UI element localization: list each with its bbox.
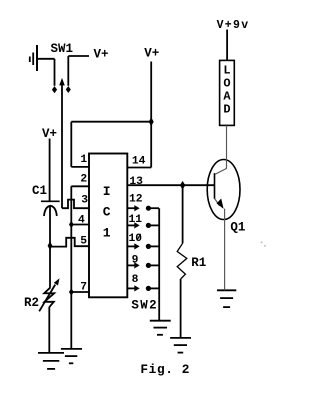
svg-text:13: 13 — [129, 176, 143, 188]
svg-text:R2: R2 — [24, 296, 39, 310]
svg-text:V+9v: V+9v — [217, 19, 250, 32]
svg-text:Fig. 2: Fig. 2 — [140, 362, 190, 377]
svg-text:9: 9 — [132, 255, 139, 267]
svg-text:12: 12 — [129, 193, 143, 205]
svg-text:V+: V+ — [94, 48, 109, 62]
svg-text:2: 2 — [80, 174, 87, 186]
svg-text:5: 5 — [80, 236, 87, 248]
svg-text:14: 14 — [132, 155, 146, 167]
svg-text:C: C — [103, 205, 111, 220]
svg-text:11: 11 — [129, 214, 143, 226]
svg-text:SW2: SW2 — [131, 298, 158, 312]
svg-text:1: 1 — [103, 225, 111, 240]
svg-text:Q1: Q1 — [230, 221, 245, 235]
svg-text:D: D — [223, 102, 230, 116]
svg-text:8: 8 — [132, 274, 139, 286]
svg-text:C1: C1 — [32, 184, 47, 198]
svg-text:4: 4 — [78, 215, 85, 227]
svg-text:3: 3 — [81, 195, 88, 207]
svg-text:V+: V+ — [42, 127, 57, 141]
svg-text:7: 7 — [80, 282, 87, 294]
svg-text:R1: R1 — [191, 256, 206, 270]
svg-text:L: L — [223, 63, 230, 77]
svg-text:SW1: SW1 — [51, 42, 74, 56]
svg-text:A: A — [223, 89, 231, 103]
svg-text:I: I — [103, 184, 111, 199]
svg-text:V+: V+ — [144, 47, 159, 61]
svg-text:1: 1 — [80, 154, 87, 166]
svg-text:O: O — [223, 76, 230, 90]
